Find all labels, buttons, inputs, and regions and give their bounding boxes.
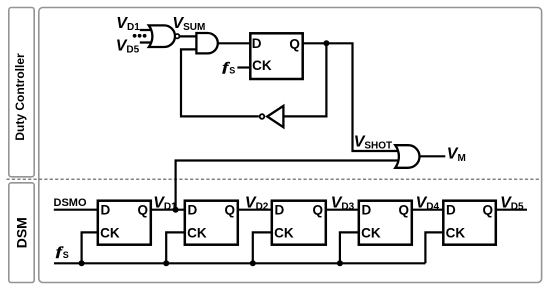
svg-text:DSMO: DSMO — [54, 197, 87, 209]
wire DFF4 Q to DFF5 D — [412, 209, 445, 211]
wire DSMO to DFF1 — [54, 209, 99, 211]
sidebar box DSM — [9, 183, 34, 283]
svg-text:Q: Q — [483, 203, 494, 218]
clock riser DFF3 — [253, 232, 273, 263]
wire top DFF Q output — [303, 43, 401, 151]
DSM flip-flop 5 — [443, 201, 496, 245]
clock riser DFF5 — [425, 232, 444, 263]
junction node at Q — [323, 40, 329, 46]
clock distribution line fS — [54, 262, 425, 264]
svg-text:CK: CK — [187, 225, 207, 240]
svg-text:CK: CK — [361, 225, 381, 240]
wire OR output to VM — [419, 155, 445, 157]
clock riser DFF4 — [340, 232, 360, 263]
svg-text:D: D — [252, 36, 262, 51]
svg-text:D: D — [362, 202, 372, 217]
DSM flip-flop 4 — [359, 201, 412, 245]
wire inverter output to AND lower input — [181, 49, 259, 116]
svg-text:CK: CK — [274, 225, 294, 240]
svg-text:Q: Q — [225, 203, 236, 218]
wire DFF1 Q to DFF2 D — [150, 209, 186, 211]
svg-text:D: D — [188, 202, 198, 217]
DSM flip-flop 2 — [185, 201, 238, 245]
AND gate — [196, 33, 217, 53]
wire DFF3 Q to DFF4 D — [326, 209, 360, 211]
wire VD5 input to NOR — [140, 41, 156, 43]
wire VD1 input to NOR — [140, 29, 156, 31]
top D flip-flop — [250, 33, 302, 79]
svg-text:S: S — [229, 65, 235, 75]
input ellipsis dots — [133, 34, 137, 38]
dashed separator line — [7, 178, 542, 180]
OR gate for VM — [395, 145, 419, 168]
NOR gate summing VD1..VD5 — [149, 25, 180, 47]
wire DFF2 Q to DFF3 D — [238, 209, 273, 211]
wire NOR output to AND — [180, 35, 197, 37]
svg-text:CK: CK — [252, 58, 272, 73]
wire DFF5 Q output VD5 — [495, 209, 527, 211]
DSM flip-flop 1 — [98, 201, 151, 245]
svg-text:Q: Q — [289, 36, 300, 51]
svg-text:S: S — [63, 250, 69, 260]
inverter in feedback path — [260, 106, 284, 127]
clock riser DFF1 — [82, 232, 99, 263]
svg-text:CK: CK — [100, 225, 120, 240]
clock junction dot 2 — [163, 260, 169, 266]
wire VD1 node up to OR lower input — [176, 161, 400, 210]
svg-text:Q: Q — [138, 203, 149, 218]
sidebar box Duty Controller — [9, 8, 34, 177]
svg-text:Q: Q — [313, 203, 324, 218]
svg-text:Q: Q — [399, 203, 410, 218]
wire feedback from Q node down to inverter — [285, 43, 327, 116]
clock riser DFF2 — [166, 232, 185, 263]
clock junction dot 4 — [337, 260, 343, 266]
svg-text:DSM: DSM — [13, 217, 29, 248]
clock junction dot 1 — [79, 260, 85, 266]
svg-text:D: D — [446, 202, 456, 217]
svg-text:D: D — [101, 202, 111, 217]
DSM flip-flop 3 — [272, 201, 326, 245]
svg-text:Duty Controller: Duty Controller — [13, 53, 27, 141]
junction node VD1 — [173, 207, 179, 213]
svg-text:CK: CK — [446, 225, 466, 240]
svg-text:D: D — [275, 202, 285, 217]
clock junction dot 3 — [250, 260, 256, 266]
wire fS to top DFF CK — [237, 66, 251, 68]
wire AND output to DFF D — [218, 42, 251, 44]
